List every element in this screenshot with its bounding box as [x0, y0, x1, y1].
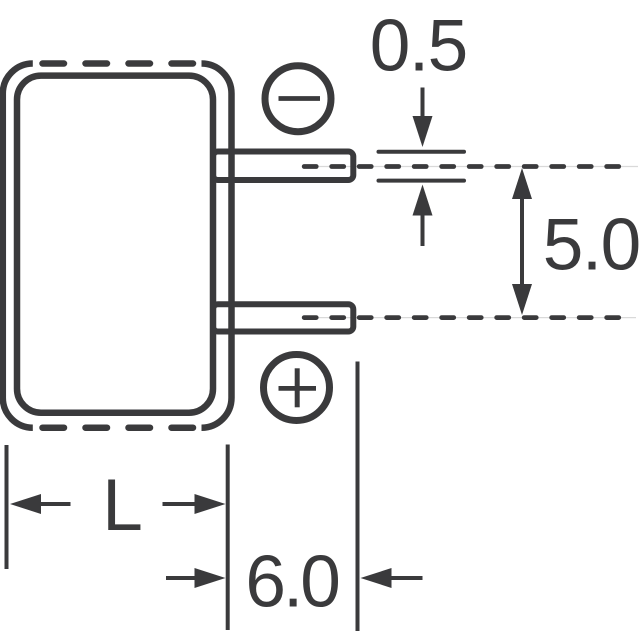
svg-text:5.0: 5.0 [543, 205, 640, 286]
svg-text:L: L [102, 465, 143, 546]
svg-text:6.0: 6.0 [245, 541, 338, 622]
svg-text:0.5: 0.5 [370, 6, 467, 87]
